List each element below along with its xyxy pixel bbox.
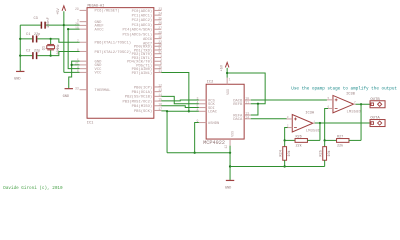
wire VSS down to ground [229,146,231,180]
wire AVCC vertical to VCC pin [68,29,79,69]
svg-text:11: 11 [245,100,249,104]
IC1 right pin 27 PC4(ADC4/SDA) [154,28,162,30]
IC1 right pin 14 PB2(SS/OC1B) [154,95,162,97]
svg-text:PC3(ADC3): PC3(ADC3) [132,23,153,28]
svg-text:VSS: VSS [230,131,234,137]
node VSS GND bus junction [229,152,231,154]
IC2 right pin 11 REFB [244,103,251,105]
IC1 left pin 20 AREF [80,24,88,26]
IC1 right pin 12 PB0(ICP) [154,86,162,88]
svg-text:DACA: DACA [233,118,243,122]
op-amp IC2 body: DAC MCP4922 box [206,84,244,139]
wire GND drop from LDAC row [166,111,168,152]
svg-text:R26: R26 [295,136,301,140]
node cap C2 row junction [19,55,21,57]
svg-text:PC6(/RESET): PC6(/RESET) [95,9,120,14]
svg-text:IC2: IC2 [207,81,213,85]
resistor R24 10k [284,140,286,146]
resistor R26 22k [285,139,295,141]
svg-text:PB7(XTAL2/TOSC2): PB7(XTAL2/TOSC2) [95,50,131,55]
wire AVCC branch [68,28,79,30]
wire PB4 to SDI [161,106,199,108]
svg-text:MCP4922: MCP4922 [203,140,225,146]
svg-text:33: 33 [75,86,79,90]
supply +5V symbol above IC2 [226,68,228,78]
svg-text:PB4(MISO): PB4(MISO) [132,104,153,109]
node A junction [284,139,286,141]
svg-text:IC3A: IC3A [305,111,315,115]
IC1 right pin 32 PD2(INT0) [154,53,162,55]
svg-text:VDD: VDD [226,89,230,95]
svg-text:C3: C3 [33,17,37,21]
op-amp IC1 body: microcontroller MEGA8-AI box [87,8,154,119]
wire IC3B inverting input to node B [325,108,328,140]
wire GND bus horizontal [167,152,230,154]
svg-text:19: 19 [158,35,162,39]
svg-text:PC5(ADC5/SCL): PC5(ADC5/SCL) [123,32,153,37]
wire output B to OUTB [356,103,371,105]
svg-text:Q1: Q1 [43,46,47,50]
svg-text:27: 27 [158,26,162,30]
wire crystal row1 to XTAL1 pin [51,39,80,42]
IC1 left pin 33 THERMAL [80,89,88,91]
IC1 right pin 2 PD4(XCK/T0) [154,60,162,62]
wire +5V down to VCC pin 6 [64,71,80,73]
svg-text:REFB: REFB [233,103,243,107]
IC1 right pin 28 PC5(ADC5/SCL) [154,33,162,35]
svg-text:PC2(ADC2): PC2(ADC2) [132,18,153,23]
IC1 right pin 31 PD1(TXD) [154,49,162,51]
IC2 left pin 9 #SHDN [199,122,206,124]
svg-text:+5V: +5V [57,8,61,15]
IC1 right pin 1 PD3(INT1) [154,57,162,59]
wire SHDN down to GND rail [195,123,199,153]
node R24 rail junction [284,165,286,167]
wire +5V to REFB [227,73,265,104]
svg-text:GND: GND [225,187,231,191]
IC1 left pin 5 GND [80,60,88,62]
wire PB2 to SCK [161,96,199,103]
supply +5V symbol left [63,11,65,72]
IC1 right pin 15 PB3(MOSI/OC2) [154,100,162,102]
wire DACB to IC3B noninverting input [251,99,327,101]
resistor R27 22k [325,139,337,141]
svg-text:LM358D: LM358D [306,130,321,134]
IC1 left pin 21 GND [80,64,88,66]
svg-text:29: 29 [75,7,79,11]
IC1 left pin 3 GND [80,21,88,23]
wire output A to OUTA [315,122,370,124]
svg-text:3: 3 [287,116,289,119]
svg-text:#SHDN: #SHDN [208,122,219,126]
wire GND pins to ground [69,61,80,88]
svg-text:12: 12 [158,83,162,87]
wire R26 feedback up to output A [319,123,321,140]
IC1 right pin 9 PD5(T1) [154,64,162,66]
svg-text:PB6(XTAL1/TOSC1): PB6(XTAL1/TOSC1) [95,41,131,46]
svg-text:7: 7 [354,101,356,104]
node resistor rail junction [229,165,231,167]
svg-text:C1: C1 [26,33,30,37]
ground GND left symbol [19,68,21,71]
svg-text:THERMAL: THERMAL [95,89,112,93]
svg-text:OUTA: OUTA [370,117,380,121]
svg-text:PB5(SCK): PB5(SCK) [134,109,152,114]
node B junction [324,139,326,141]
wire PB5 to LDAC [161,110,199,112]
IC1 right pin 13 PB1(OC1A) [154,91,162,93]
svg-text:GND: GND [14,78,20,82]
IC2 left pin 3 #CS [199,99,206,101]
svg-text:ADC6: ADC6 [143,38,153,42]
node REFB junction [257,103,259,105]
svg-text:1: 1 [229,78,231,82]
svg-text:IC1: IC1 [87,122,94,126]
svg-text:23: 23 [158,7,162,11]
IC1 right pin 24 PC1(ADC1) [154,14,162,16]
IC2 left pin 4 SCK [199,103,206,105]
svg-text:22p: 22p [34,49,40,53]
connector OUTB [370,101,385,108]
svg-text:PD7(AIN1): PD7(AIN1) [132,71,153,76]
svg-text:24: 24 [158,12,162,16]
op-amp IC3B [333,95,354,112]
IC1 left pin 6 VCC [80,71,88,73]
svg-text:Use the opamp stage to amplify: Use the opamp stage to amplify the outpu… [291,87,397,92]
IC2 left pin 8 LDAC [199,110,206,112]
svg-text:10k: 10k [287,150,292,156]
svg-text:22k: 22k [337,143,343,148]
IC1 left pin 8 PB7(XTAL2/TOSC2) [80,50,88,52]
svg-text:28: 28 [158,30,162,34]
wire IC3A inverting input to node A [285,128,288,141]
svg-text:PC0(ADC0): PC0(ADC0) [132,9,153,14]
svg-text:R24: R24 [280,150,284,156]
node SHDN GND junction [194,152,196,154]
wire REFB to REFA [251,104,258,115]
wire GND pin 21 join [72,64,80,66]
wire ground rail to resistors [230,165,325,167]
wire GND vertical rail left [19,25,21,68]
svg-text:100nF: 100nF [47,17,51,28]
node output B feedback junction [360,103,362,105]
svg-text:PB1(OC1A): PB1(OC1A) [132,90,153,95]
IC1 right pin 17 PB5(SCK) [154,109,162,111]
node VDD junction [226,72,228,74]
IC1 left pin 29 PC6(/RESET) [80,9,88,11]
svg-text:C2: C2 [26,49,30,53]
capacitor C3 100nF [20,24,41,26]
IC2 pin 12 VSS stub [229,139,231,146]
IC1 right pin 25 PC2(ADC2) [154,19,162,21]
svg-text:13: 13 [158,88,162,92]
svg-text:5: 5 [327,97,329,100]
IC1 left pin 4 VCC [80,68,88,70]
svg-text:IC3B: IC3B [346,92,356,96]
wire PB3 to CS [161,99,199,102]
IC2 right pin 13 REFA [244,114,251,116]
IC1 right pin 30 PD0(RXD) [154,45,162,47]
IC1 right pin 10 PD6(AIN0) [154,68,162,70]
ground GND below IC2 [226,179,234,181]
capacitor C2 22p [20,55,32,57]
svg-text:26: 26 [158,21,162,25]
wire DACA to IC3A noninverting input [251,118,287,120]
IC2 pin 1 VDD stub [226,78,228,85]
IC1 right pin 23 PC0(ADC0) [154,9,162,11]
svg-text:AVCC: AVCC [95,28,105,32]
svg-text:22p: 22p [34,33,40,37]
wire R27 feedback up to output B [360,104,362,140]
IC1 left pin 18 AVCC [80,28,88,30]
IC1 right pin 11 PD7(AIN1) [154,72,162,74]
capacitor C1 22p [20,38,32,40]
svg-text:12: 12 [224,145,228,149]
svg-text:Davide Gironi (c), 2010: Davide Gironi (c), 2010 [3,186,63,191]
node GND pins junction [71,64,73,66]
svg-text:R25: R25 [320,150,324,156]
IC2 right pin 10 DACB [244,99,251,101]
svg-text:PB2(SS/OC1B): PB2(SS/OC1B) [125,95,152,100]
IC1 right pin 22 ADC7 [154,42,162,44]
node output A feedback junction [319,122,321,124]
svg-text:LDAC: LDAC [208,111,218,115]
svg-text:PC4(ADC4/SDA): PC4(ADC4/SDA) [123,28,153,33]
resistor R25 10k [324,140,326,146]
svg-text:14: 14 [245,115,249,119]
IC1 left pin 7 PB6(XTAL1/TOSC1) [80,41,88,43]
IC1 right pin 19 ADC6 [154,38,162,40]
svg-text:PB3(MOSI/OC2): PB3(MOSI/OC2) [123,99,153,104]
svg-text:MEGA8-AI: MEGA8-AI [87,5,104,9]
wire crystal row2 to XTAL2 pin [51,51,80,55]
IC1 right pin 16 PB4(MISO) [154,105,162,107]
svg-text:PC1(ADC1): PC1(ADC1) [132,13,153,18]
node AVCC branch junction [67,28,69,30]
svg-text:GND: GND [63,95,69,99]
svg-text:22k: 22k [295,143,301,148]
svg-text:OUTB: OUTB [370,98,380,102]
wire PD7 down to LDAC row [161,73,189,112]
node AREF row +5V junction [63,24,65,26]
svg-text:R27: R27 [337,136,343,140]
node cap C1 row junction [19,38,21,40]
wire AREF row to pin [64,24,80,26]
node PD7 LDAC junction [188,110,190,112]
svg-text:LM358D: LM358D [346,111,361,115]
svg-text:10k: 10k [327,150,332,156]
svg-text:VCC: VCC [95,72,103,76]
op-amp IC3A [292,115,313,132]
svg-text:+5V: +5V [221,64,225,71]
node PB5 GND drop junction [166,110,168,112]
svg-text:PB0(ICP): PB0(ICP) [134,85,152,90]
IC1 right pin 26 PC3(ADC3) [154,24,162,26]
IC2 right pin 14 DACA [244,118,251,120]
connector OUTA [370,120,385,127]
svg-text:25: 25 [158,16,162,20]
ground GND below VCC pins [65,88,73,90]
IC2 left pin 5 SDI [199,107,206,109]
crystal Q1 16MHz [50,38,52,40]
